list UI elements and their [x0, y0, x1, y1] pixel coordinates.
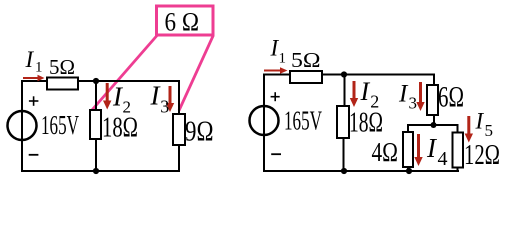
svg-text:5Ω: 5Ω: [49, 55, 75, 79]
current arrow I3 (left circuit): [166, 86, 174, 112]
current arrow I2 (left circuit): [103, 83, 111, 110]
svg-text:3: 3: [409, 94, 418, 113]
svg-text:165V: 165V: [284, 106, 322, 136]
wire 6Ω branch upper (right circuit): [433, 74, 435, 86]
current arrow I2 (right circuit): [350, 81, 358, 107]
resistor 18Ω (left circuit): [90, 110, 101, 139]
resistor 4Ω (right circuit): [403, 132, 413, 167]
svg-text:1: 1: [35, 60, 43, 76]
resistor 18Ω (right circuit): [337, 106, 349, 138]
wire 12Ω branch upper (right circuit): [457, 124, 459, 132]
wire 12Ω branch lower (right circuit): [457, 167, 459, 172]
wire middle branch lower (left circuit): [95, 139, 97, 171]
svg-text:4Ω: 4Ω: [372, 137, 399, 167]
wire right branch upper (left circuit): [178, 80, 180, 114]
wire bottom (right circuit): [263, 170, 459, 172]
wire 6Ω branch lower (right circuit): [433, 115, 435, 125]
wire top (right circuit): [264, 74, 434, 76]
svg-text:165V: 165V: [41, 110, 79, 140]
svg-text:6Ω: 6Ω: [438, 81, 464, 114]
callout box 6Ω (pink): [157, 6, 214, 35]
voltage source 165V (left circuit): [8, 111, 37, 140]
wire left rail (left circuit): [21, 80, 23, 172]
svg-text:18Ω: 18Ω: [102, 113, 138, 144]
svg-text:12Ω: 12Ω: [464, 139, 500, 171]
current arrow I3 (right circuit): [416, 82, 424, 111]
svg-text:18Ω: 18Ω: [349, 107, 383, 139]
node bottom of 18Ω branch (left circuit): [93, 168, 99, 174]
wire bottom (left circuit): [21, 170, 180, 172]
node bottom of 4Ω branch (right circuit): [406, 168, 412, 174]
svg-text:5Ω: 5Ω: [291, 48, 321, 72]
svg-text:1: 1: [279, 51, 287, 67]
node top of 18Ω branch (right circuit): [341, 71, 347, 77]
minus sign (left source): [29, 154, 39, 156]
svg-text:5: 5: [485, 121, 494, 140]
plus sign (right source): [271, 92, 280, 101]
resistor 6Ω (right circuit): [427, 85, 438, 115]
svg-text:I: I: [475, 109, 485, 134]
wire top (left circuit): [22, 80, 179, 82]
current arrow I1 (right circuit): [264, 67, 288, 73]
node bottom of 18Ω branch (right circuit): [341, 168, 347, 174]
wire 4Ω branch upper (right circuit): [407, 124, 409, 132]
svg-text:9Ω: 9Ω: [185, 117, 214, 148]
voltage source 165V (right circuit): [250, 106, 279, 135]
wire 18Ω branch lower (right circuit): [343, 138, 345, 171]
resistor 5Ω (right circuit): [290, 71, 322, 83]
callout line to 9Ω: [179, 36, 213, 111]
minus sign (right source): [271, 153, 281, 155]
plus sign (left source): [29, 96, 39, 106]
current arrow I5 (right circuit): [465, 116, 473, 143]
wire left rail (right circuit): [263, 74, 265, 173]
resistor 5Ω (left circuit): [47, 78, 78, 90]
current arrow I4 (right circuit): [414, 134, 422, 166]
wire right branch lower (left circuit): [178, 145, 180, 172]
svg-text:I: I: [360, 77, 371, 106]
callout line to 18Ω: [92, 36, 158, 111]
wire 4Ω branch lower (right circuit): [407, 167, 409, 171]
svg-text:3: 3: [160, 97, 169, 117]
wire middle branch upper (left circuit): [95, 81, 97, 110]
svg-text:6 Ω: 6 Ω: [165, 8, 200, 37]
svg-text:I: I: [25, 47, 35, 72]
node below 6Ω (right circuit): [431, 122, 437, 128]
node top of 18Ω branch (left circuit): [93, 78, 99, 84]
wire 18Ω branch upper (right circuit): [344, 75, 346, 107]
resistor 9Ω (left circuit): [173, 114, 185, 145]
current arrow I1 (left circuit): [23, 75, 45, 81]
resistor 12Ω (right circuit): [453, 133, 464, 168]
svg-text:2: 2: [123, 98, 132, 117]
svg-text:4: 4: [438, 148, 448, 170]
wire parallel-section top (right circuit): [408, 124, 458, 126]
